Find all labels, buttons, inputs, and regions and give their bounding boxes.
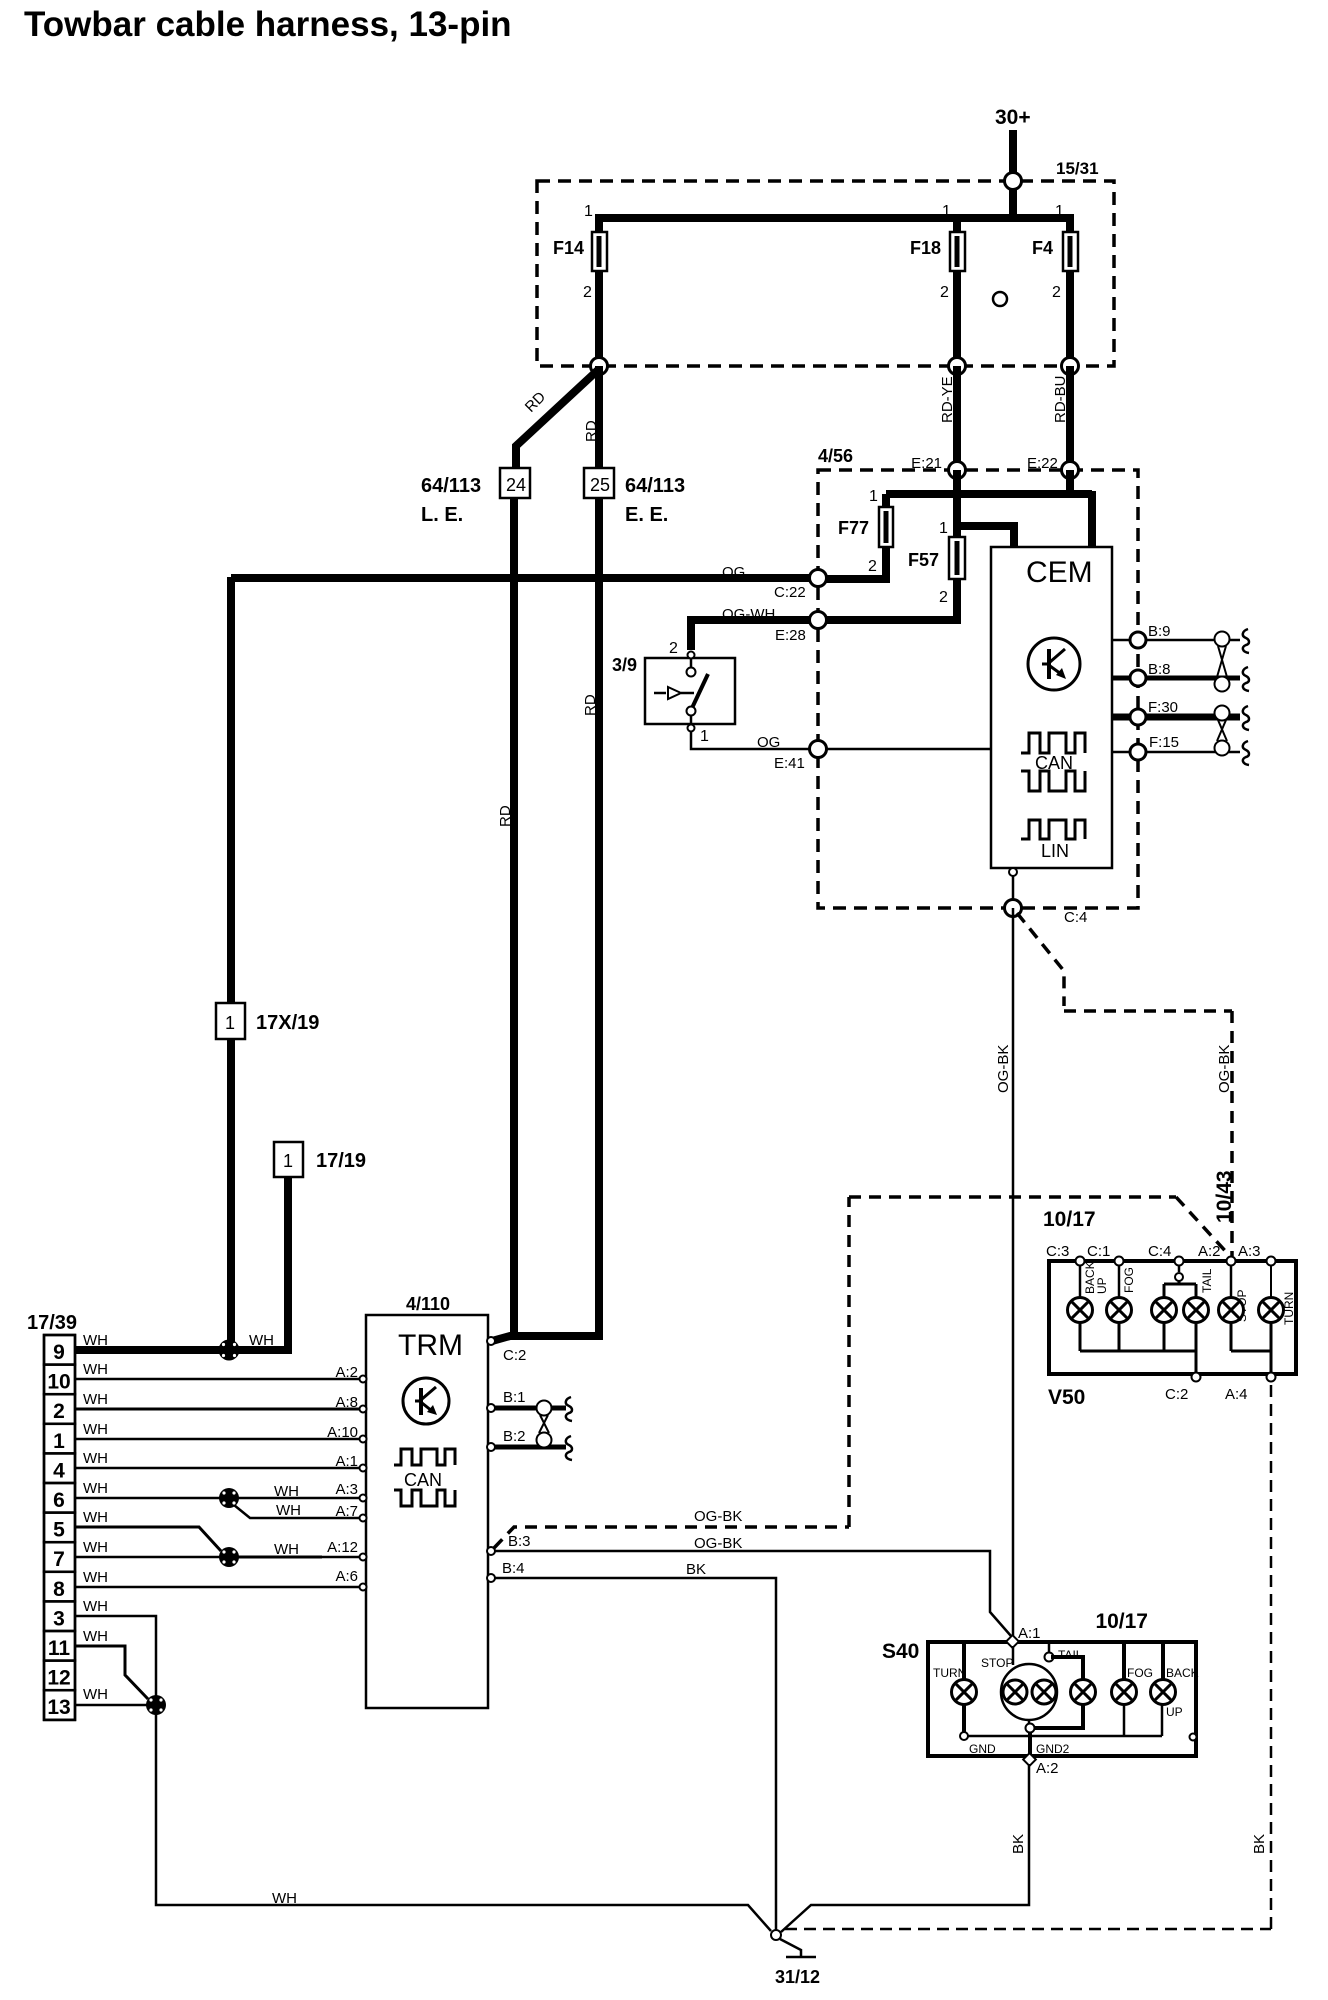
- label 64/113 L.E.: [421, 475, 481, 526]
- node F:15: [1130, 744, 1146, 760]
- svg-text:UP: UP: [1166, 1705, 1183, 1719]
- wire from 17/19 down to WH row: [284, 1177, 292, 1354]
- lamp TURN: [933, 1666, 977, 1705]
- lamp cluster V50 10/17: [1043, 1208, 1296, 1409]
- pin C:4 stub under CEM: [1009, 868, 1017, 908]
- svg-text:10/43: 10/43: [1213, 1170, 1236, 1223]
- wire OG-BK solid from TRM B:3 to S40 A:1: [494, 1535, 1011, 1636]
- svg-text:A:3: A:3: [1238, 1243, 1261, 1260]
- wire WH pin3 down to splice13: [75, 1598, 156, 1700]
- wire WH pin7 to A:12: [75, 1539, 367, 1561]
- svg-text:8: 8: [53, 1578, 65, 1601]
- svg-text:1: 1: [942, 203, 951, 220]
- svg-text:OG-BK: OG-BK: [694, 1535, 742, 1552]
- ground node 31/12: [771, 1930, 781, 1940]
- svg-text:A:2: A:2: [1198, 1243, 1221, 1260]
- wire WH pin6 to A:3: [75, 1480, 367, 1502]
- svg-text:TRM: TRM: [398, 1329, 463, 1362]
- twisted pair symbol B:9/B:8: [1215, 629, 1250, 692]
- svg-text:F4: F4: [1032, 238, 1053, 258]
- svg-text:7: 7: [53, 1548, 65, 1571]
- svg-text:RD-YE: RD-YE: [939, 376, 956, 423]
- svg-text:15/31: 15/31: [1056, 159, 1099, 178]
- svg-text:A:6: A:6: [335, 1568, 358, 1585]
- svg-text:17/39: 17/39: [27, 1312, 77, 1334]
- svg-text:C:2: C:2: [1165, 1386, 1188, 1403]
- wire RD diagonal from F14 node to connector 24: [516, 369, 599, 468]
- wire BK from S40 A:2 to ground: [781, 1764, 1029, 1932]
- decorative hole circle in 15/31: [993, 292, 1007, 306]
- svg-text:C:22: C:22: [774, 584, 806, 601]
- wire CEM pin F:30: [1112, 699, 1240, 717]
- lamp BACK UP (S40): [1151, 1666, 1199, 1719]
- wire F77 to C:22: [818, 575, 890, 583]
- node E:41: [774, 741, 827, 773]
- lamp TAIL right (V50): [1184, 1298, 1209, 1323]
- svg-text:A:7: A:7: [335, 1503, 358, 1520]
- svg-text:OG-BK: OG-BK: [1216, 1045, 1233, 1093]
- svg-text:C:4: C:4: [1148, 1243, 1171, 1260]
- svg-text:UP: UP: [1095, 1277, 1109, 1294]
- svg-text:C:3: C:3: [1046, 1243, 1069, 1260]
- svg-text:BK: BK: [686, 1561, 706, 1578]
- svg-text:A:12: A:12: [327, 1539, 358, 1556]
- svg-text:OG-BK: OG-BK: [995, 1045, 1012, 1093]
- svg-text:9: 9: [53, 1341, 65, 1364]
- svg-text:C:1: C:1: [1087, 1243, 1110, 1260]
- svg-text:L. E.: L. E.: [421, 504, 463, 526]
- svg-text:E:22: E:22: [1027, 455, 1058, 472]
- op-amp/ECU symbol K in CEM: [1028, 638, 1080, 690]
- lamp TAIL left (V50): [1152, 1298, 1177, 1323]
- svg-text:1: 1: [283, 1151, 293, 1171]
- wire CEM pin B:9: [1112, 623, 1240, 640]
- wire WH splice6 branch to A:7: [234, 1502, 367, 1522]
- wire OG-WH from switch to E:28: [691, 606, 818, 650]
- connector 17/39 pin strip: [44, 1335, 75, 1720]
- connector 24 of 64/113: [500, 468, 530, 498]
- fuse F4: [1032, 203, 1078, 366]
- wire OG from switch pin1 to E:41 and CEM: [691, 731, 991, 751]
- node E:21: [911, 455, 965, 479]
- connector 25 of 64/113: [584, 468, 614, 498]
- wire F57 pin1 to CEM top: [957, 526, 1014, 547]
- svg-text:1: 1: [1055, 203, 1064, 220]
- node C:22: [774, 570, 827, 602]
- svg-text:F18: F18: [910, 238, 941, 258]
- svg-text:WH: WH: [83, 1450, 108, 1467]
- svg-text:2: 2: [1052, 284, 1061, 301]
- wire TAIL pin to lamp: [1051, 1657, 1083, 1680]
- wire BK from TRM B:4 to ground: [494, 1561, 776, 1930]
- node F4 output: [1062, 358, 1079, 375]
- svg-text:TURN: TURN: [933, 1666, 966, 1680]
- wire WH pin9 (thick): [75, 1332, 292, 1350]
- node F:30: [1130, 709, 1146, 725]
- svg-text:BK: BK: [1251, 1834, 1268, 1854]
- svg-text:6: 6: [53, 1489, 65, 1512]
- wire BACKUP lamp top: [1161, 1644, 1165, 1680]
- connector 17/39 label: [27, 1312, 77, 1334]
- svg-text:OG-BK: OG-BK: [694, 1508, 742, 1525]
- svg-text:B:9: B:9: [1148, 623, 1171, 640]
- twisted pair symbol B:1/B:2: [537, 1397, 573, 1460]
- svg-text:WH: WH: [276, 1502, 301, 1519]
- svg-text:CEM: CEM: [1026, 556, 1093, 589]
- wire 30+ drop to bus: [1009, 181, 1017, 222]
- svg-text:2: 2: [669, 640, 678, 657]
- wire RD vertical from F14 node to connector 25: [583, 366, 600, 468]
- svg-text:2: 2: [583, 284, 592, 301]
- pin C:2: [487, 1337, 526, 1364]
- wire dashed OG-BK from C:4 to 10/43: [1017, 913, 1236, 1256]
- svg-text:OG-WH: OG-WH: [722, 606, 775, 623]
- svg-text:WH: WH: [83, 1598, 108, 1615]
- svg-text:1: 1: [939, 520, 948, 537]
- svg-text:3: 3: [53, 1607, 65, 1630]
- node 30+ supply label: [995, 106, 1031, 129]
- pin B:3: [487, 1533, 531, 1555]
- svg-text:12: 12: [47, 1667, 70, 1690]
- wire ground bus S40: [968, 1704, 1197, 1741]
- splice WH pin6: [219, 1488, 239, 1508]
- wire OG riser left vertical: [227, 577, 235, 1350]
- splice WH pin9: [219, 1340, 240, 1361]
- ground symbol: [775, 1939, 820, 1987]
- svg-text:V50: V50: [1048, 1386, 1085, 1409]
- lamp TAIL (S40): [1071, 1680, 1096, 1705]
- svg-text:17X/19: 17X/19: [256, 1012, 319, 1034]
- wire RD-YE from F18 node to E:21: [939, 366, 957, 470]
- wire A:3 to TURN lamp: [1271, 1265, 1296, 1325]
- svg-text:WH: WH: [83, 1509, 108, 1526]
- svg-text:E:21: E:21: [911, 455, 942, 472]
- svg-text:A:4: A:4: [1225, 1386, 1248, 1403]
- switch 3/9: [612, 640, 735, 745]
- lamp BACK UP (V50): [1068, 1298, 1093, 1323]
- svg-text:5: 5: [53, 1519, 65, 1542]
- svg-text:F:15: F:15: [1149, 734, 1179, 751]
- connector box 4/56 (dashed): [818, 446, 1138, 908]
- connector 1 of 17X/19: [216, 1003, 319, 1039]
- wire OG-BK from C:4 to S40 A:1: [995, 908, 1013, 1637]
- svg-text:FOG: FOG: [1122, 1267, 1136, 1293]
- svg-text:WH: WH: [274, 1483, 299, 1500]
- lamp FOG (V50): [1107, 1298, 1132, 1323]
- svg-text:B:2: B:2: [503, 1428, 526, 1445]
- wire dashed BK ground to V50 A:4: [785, 1385, 1271, 1929]
- svg-text:64/113: 64/113: [421, 475, 481, 497]
- wire V50 left ground bus to C:2: [1080, 1322, 1196, 1374]
- wire OG from left riser to C:22: [231, 564, 818, 581]
- svg-text:10/17: 10/17: [1043, 1208, 1096, 1231]
- svg-text:A:8: A:8: [335, 1394, 358, 1411]
- svg-text:S40: S40: [882, 1640, 919, 1663]
- svg-text:CAN: CAN: [404, 1470, 442, 1490]
- svg-text:RD: RD: [583, 420, 600, 442]
- wire WH splice to ground 31/12: [156, 1705, 771, 1931]
- svg-text:10/17: 10/17: [1095, 1610, 1148, 1633]
- wire C:3 to BACKUP lamp: [1080, 1261, 1109, 1298]
- svg-text:24: 24: [506, 475, 526, 495]
- svg-text:1: 1: [584, 203, 593, 220]
- svg-text:A:10: A:10: [327, 1424, 358, 1441]
- svg-text:WH: WH: [272, 1890, 297, 1907]
- pin A:3 (V50): [1238, 1243, 1276, 1266]
- wire F77 top feed horizontal: [869, 488, 1092, 505]
- svg-text:TAIL: TAIL: [1200, 1268, 1214, 1293]
- pin GND2: [1026, 1724, 1070, 1757]
- control module TRM: [366, 1294, 488, 1708]
- svg-text:2: 2: [939, 589, 948, 606]
- svg-text:E:41: E:41: [774, 755, 805, 772]
- svg-text:RD: RD: [582, 694, 599, 716]
- control module CEM: [991, 547, 1112, 868]
- svg-text:A:2: A:2: [335, 1364, 358, 1381]
- fuse F14: [553, 203, 607, 366]
- svg-text:B:8: B:8: [1148, 661, 1171, 678]
- pin C:1: [1087, 1243, 1124, 1266]
- wire GND2 to A:2: [1028, 1732, 1032, 1755]
- svg-text:WH: WH: [83, 1361, 108, 1378]
- pin A:2 (V50): [1198, 1243, 1236, 1266]
- svg-text:25: 25: [590, 475, 610, 495]
- svg-text:C:2: C:2: [503, 1347, 526, 1364]
- svg-text:30+: 30+: [995, 106, 1031, 129]
- svg-text:LIN: LIN: [1041, 841, 1069, 861]
- svg-text:F57: F57: [908, 550, 939, 570]
- svg-text:GND2: GND2: [1036, 1742, 1070, 1756]
- svg-text:10: 10: [47, 1371, 70, 1394]
- splice WH pins 3/11/13: [146, 1695, 166, 1715]
- lamp STOP dual: [981, 1646, 1057, 1724]
- wire C:1 to FOG lamp: [1119, 1265, 1136, 1298]
- CAN bus symbol in TRM: [394, 1449, 455, 1506]
- svg-text:F:30: F:30: [1148, 699, 1178, 716]
- svg-text:4: 4: [53, 1459, 65, 1482]
- wire dashed OG-BK from TRM B:3 to V50 A:2: [494, 1197, 1229, 1548]
- wire TURN lamp to GND: [962, 1704, 966, 1732]
- svg-text:2: 2: [940, 284, 949, 301]
- wire CEM pin B:8: [1112, 661, 1240, 678]
- svg-text:RD: RD: [497, 805, 514, 827]
- svg-text:BACK: BACK: [1166, 1666, 1199, 1680]
- node E:28: [775, 612, 827, 645]
- CAN bus symbol in CEM: [1021, 733, 1085, 791]
- wire WH pin1 to A:10: [75, 1421, 367, 1443]
- svg-text:BK: BK: [1010, 1834, 1027, 1854]
- LIN bus symbol in CEM: [1021, 820, 1085, 861]
- wire CEM pin F:15: [1112, 734, 1240, 752]
- fuse F57: [908, 520, 965, 606]
- svg-text:1: 1: [869, 488, 878, 505]
- pin A:2 (S40): [1023, 1753, 1058, 1777]
- node B:8: [1130, 670, 1146, 686]
- svg-text:F14: F14: [553, 238, 584, 258]
- svg-text:OG: OG: [757, 734, 780, 751]
- fuse F77: [838, 494, 893, 579]
- svg-text:WH: WH: [83, 1391, 108, 1408]
- wire RD-BU from F4 node to E:22: [1052, 366, 1070, 470]
- svg-text:WH: WH: [83, 1539, 108, 1556]
- svg-text:B:1: B:1: [503, 1389, 526, 1406]
- node junction 30+/bus on 15/31 edge: [1005, 173, 1022, 190]
- svg-text:2: 2: [53, 1400, 65, 1423]
- svg-text:E. E.: E. E.: [625, 504, 668, 526]
- label 64/113 E.E.: [625, 475, 685, 526]
- connector 1 of 17/19: [274, 1142, 366, 1177]
- wire RD long vertical from 24 to TRM C:2: [497, 498, 514, 1332]
- wire V50 right bus to A:4: [1231, 1322, 1271, 1374]
- svg-text:1: 1: [225, 1013, 235, 1033]
- wire C:4 fork to TAIL lamps: [1164, 1265, 1214, 1298]
- wire TURN lamp top: [962, 1644, 966, 1680]
- svg-text:A:3: A:3: [335, 1481, 358, 1498]
- wire F57 pin2 to E:28: [818, 579, 957, 620]
- svg-text:WH: WH: [83, 1480, 108, 1497]
- svg-text:WH: WH: [274, 1541, 299, 1558]
- lamp TURN (V50): [1259, 1298, 1284, 1323]
- svg-text:WH: WH: [249, 1332, 274, 1349]
- pin TAIL stub: [1045, 1644, 1083, 1662]
- wire FOG lamp top: [1122, 1644, 1126, 1680]
- wire WH pin11 to splice13: [75, 1628, 148, 1699]
- pin A:4 (V50): [1225, 1373, 1276, 1404]
- svg-text:F77: F77: [838, 518, 869, 538]
- wire WH pin4 to A:1: [75, 1450, 367, 1472]
- wire RD long vertical from 25 to TRM C:2: [582, 498, 599, 1332]
- wire WH pin5 into splice7: [75, 1509, 221, 1551]
- svg-text:A:1: A:1: [335, 1453, 358, 1470]
- svg-text:WH: WH: [83, 1628, 108, 1645]
- svg-text:OG: OG: [722, 564, 745, 581]
- wire TRM B:2 twisted: [487, 1428, 566, 1451]
- lamp STOP (V50): [1219, 1298, 1244, 1323]
- svg-text:1: 1: [53, 1430, 65, 1453]
- wire CEM top entry right: [1088, 491, 1096, 547]
- svg-text:WH: WH: [83, 1421, 108, 1438]
- pin C:3: [1046, 1243, 1085, 1266]
- svg-text:WH: WH: [83, 1569, 108, 1586]
- wire WH pin13 to splice13: [75, 1686, 156, 1705]
- wire 30+ feed: [1009, 130, 1017, 181]
- pin B:4: [487, 1560, 525, 1582]
- node E:22: [1027, 455, 1079, 479]
- svg-text:GND: GND: [969, 1742, 996, 1756]
- svg-text:C:4: C:4: [1064, 909, 1087, 926]
- svg-text:4/110: 4/110: [406, 1294, 450, 1314]
- svg-text:2: 2: [868, 558, 877, 575]
- connector box 15/31 (dashed): [537, 159, 1114, 366]
- wire fuse bus: [595, 214, 1074, 222]
- svg-text:17/19: 17/19: [316, 1150, 366, 1172]
- svg-text:STOP: STOP: [981, 1656, 1013, 1670]
- node F18 output: [949, 358, 966, 375]
- lamp FOG (S40): [1112, 1666, 1154, 1705]
- svg-text:A:2: A:2: [1036, 1760, 1059, 1777]
- svg-text:64/113: 64/113: [625, 475, 685, 497]
- splice WH pin7: [219, 1547, 239, 1567]
- pin A:1: [1006, 1625, 1040, 1648]
- svg-text:Towbar cable harness, 13-pin: Towbar cable harness, 13-pin: [24, 5, 512, 44]
- svg-text:E:28: E:28: [775, 627, 806, 644]
- svg-text:A:1: A:1: [1018, 1625, 1041, 1642]
- wire TAIL lamp to GND2: [1034, 1704, 1083, 1728]
- wire WH pin2 to A:8: [75, 1391, 367, 1413]
- node B:9: [1130, 632, 1146, 648]
- svg-text:WH: WH: [83, 1686, 108, 1703]
- pin GND: [960, 1732, 996, 1756]
- svg-text:11: 11: [48, 1637, 71, 1660]
- svg-text:31/12: 31/12: [775, 1967, 820, 1987]
- wire RD elbow into TRM C:2: [492, 1332, 599, 1341]
- svg-text:FOG: FOG: [1127, 1666, 1153, 1680]
- svg-text:RD-BU: RD-BU: [1052, 376, 1069, 424]
- svg-text:B:4: B:4: [502, 1560, 525, 1577]
- op-amp/ECU symbol K in TRM: [403, 1378, 449, 1424]
- svg-text:1: 1: [700, 728, 709, 745]
- node C:4: [1005, 900, 1088, 927]
- wire WH pin10 to A:2: [75, 1361, 367, 1383]
- wire TRM B:1 twisted: [487, 1389, 566, 1412]
- svg-text:13: 13: [47, 1696, 70, 1719]
- svg-text:3/9: 3/9: [612, 655, 637, 675]
- wire E:21 drop to F57: [953, 470, 961, 541]
- twisted pair symbol F:30/F:15: [1215, 706, 1250, 766]
- svg-text:WH: WH: [83, 1332, 108, 1349]
- wire A:2 to STOP lamp: [1231, 1265, 1249, 1322]
- wire E:22 drop to feed: [1066, 470, 1074, 494]
- fuse F18: [910, 203, 965, 366]
- wire WH pin8 to A:6: [75, 1568, 367, 1591]
- svg-text:4/56: 4/56: [818, 446, 853, 466]
- svg-text:B:3: B:3: [508, 1533, 531, 1550]
- pin C:2 (V50): [1165, 1373, 1201, 1404]
- pin C:4 (V50): [1148, 1243, 1184, 1266]
- lamp cluster S40 10/17: [882, 1610, 1196, 1756]
- node F14 output: [591, 358, 608, 375]
